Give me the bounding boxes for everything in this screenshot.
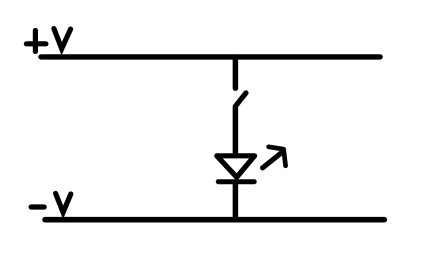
net -V label [31, 193, 71, 212]
wire: LED cathode to -V rail [233, 184, 239, 219]
-V rail wire [45, 217, 384, 223]
switch S1 blade (open) [236, 93, 246, 106]
net +V label [26, 29, 70, 52]
wire: +V rail to switch [233, 57, 239, 88]
LED D1 anode triangle [217, 156, 255, 177]
LED D1 cathode bar [218, 179, 254, 184]
+V rail wire [41, 54, 380, 59]
LED D1 emission arrow head [269, 147, 286, 166]
wire: switch to LED anode [233, 107, 239, 155]
LED D1 emission arrow shaft [263, 152, 283, 168]
